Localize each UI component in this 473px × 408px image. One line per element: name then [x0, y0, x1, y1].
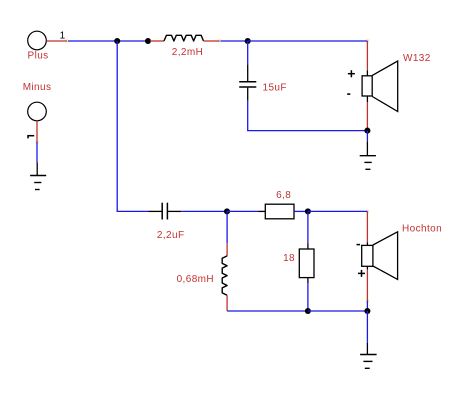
terminal Plus [28, 31, 47, 50]
pin lead R2 top [307, 243, 309, 249]
capacitor C2 2,2uF [162, 203, 167, 220]
svg-text:W132: W132 [403, 53, 431, 64]
svg-text:2,2mH: 2,2mH [172, 47, 203, 58]
pin mark Hochton net corner [366, 210, 369, 213]
pin stub Hochton top [366, 242, 368, 245]
svg-text:Minus: Minus [23, 82, 52, 93]
polarity + (W132) [348, 70, 355, 77]
svg-text:18: 18 [283, 253, 295, 264]
capacitor C1 15uF [239, 82, 256, 87]
wire node G to node H [308, 310, 368, 312]
ground G3 [360, 343, 377, 369]
junction node F [305, 208, 311, 214]
polarity + (Hochton) [358, 270, 365, 277]
svg-text:6,8: 6,8 [276, 190, 291, 201]
ground G1 [360, 141, 376, 169]
pin mark Hochton bottom [366, 299, 369, 302]
wire node D to ground [366, 131, 368, 142]
wire node C down to C1 [247, 41, 249, 65]
speaker LS2 Hochton [362, 232, 398, 280]
wire R2 to node G [307, 283, 309, 311]
pin lead C2 left [148, 210, 162, 212]
svg-text:0,68mH: 0,68mH [177, 274, 214, 285]
wire node C to speaker column [248, 40, 368, 42]
speaker LS1 W132 [362, 61, 398, 112]
polarity - (Hochton) [357, 244, 361, 246]
wire node F down to R2 [307, 211, 309, 243]
pin mark node 1 [65, 39, 68, 42]
wire Hochton to node H [366, 301, 368, 311]
junction node C [245, 38, 251, 44]
junction node B [145, 38, 151, 44]
pin lead W132 bottom (red) [366, 102, 368, 130]
junction node H [364, 308, 370, 314]
pin stub W132 top [366, 70, 368, 75]
pin lead C2 right [167, 210, 181, 212]
wire C2 to node E [181, 210, 227, 212]
pin lead Minus [36, 121, 38, 142]
pin lead C1 bottom [247, 88, 249, 101]
wire node F to speaker column [308, 210, 368, 212]
svg-text:Plus: Plus [28, 51, 49, 62]
pin lead R1 left [259, 210, 266, 212]
junction node D [364, 128, 370, 134]
pin lead Plus [47, 40, 68, 42]
inductor L2 0,68mH [222, 256, 227, 295]
pin mark L1 right [218, 39, 221, 42]
pin mark W132 net corner [366, 39, 369, 42]
pin number 1 (Minus, rotated) [27, 136, 34, 139]
pin stub W132 bottom [366, 96, 368, 102]
pin lead C1 top [247, 65, 249, 81]
wire L2 bottom to node G [227, 310, 308, 312]
pin lead L1 left [150, 40, 164, 42]
pin stub Hochton bottom [366, 266, 368, 269]
wire speaker column down (red, row2) [366, 211, 368, 242]
wire node H to ground [366, 311, 368, 343]
junction node G [305, 308, 311, 314]
resistor R2 18 [299, 249, 314, 278]
pin lead R2 bottom [307, 278, 309, 283]
pin lead L1 right [204, 40, 220, 42]
svg-text:15uF: 15uF [263, 83, 287, 94]
wire L1 to node C [221, 40, 248, 42]
wire C1 bottom to node D [248, 100, 368, 130]
junction node A [114, 38, 120, 44]
svg-text:1: 1 [60, 30, 66, 41]
wire speaker column down (red) [366, 41, 368, 70]
pin lead Hochton bottom (red) [366, 269, 368, 301]
ground G2 [30, 162, 46, 189]
wire Minus to ground [36, 142, 38, 162]
wire node E down to L2 [226, 211, 228, 243]
wire node A down to row 2 [117, 41, 148, 211]
wire node E to R1 [227, 210, 259, 212]
svg-text:2,2uF: 2,2uF [157, 230, 185, 241]
resistor R1 6,8 [265, 204, 294, 219]
wire R1 to node F [294, 210, 308, 212]
pin mark Minus [35, 140, 38, 143]
inductor L1 2,2mH [164, 35, 204, 41]
wire Plus to node A [68, 40, 148, 42]
polarity - (W132) [347, 93, 350, 95]
svg-text:Hochton: Hochton [402, 223, 442, 234]
pin lead L2 bottom (red) [226, 295, 228, 311]
pin lead L2 top (red) [226, 243, 228, 256]
terminal Minus [28, 102, 47, 121]
junction node E [224, 208, 230, 214]
